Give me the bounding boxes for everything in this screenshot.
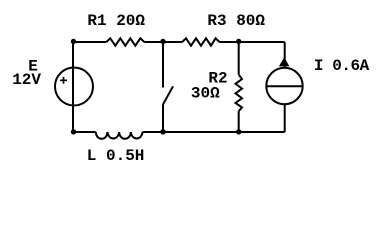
current source I diameter line — [266, 85, 302, 87]
svg-text:L 0.5H: L 0.5H — [87, 147, 145, 165]
resistor R1 — [106, 38, 144, 45]
svg-text:12V: 12V — [12, 71, 41, 89]
wire right vertical top — [284, 42, 286, 68]
svg-text:R3 80Ω: R3 80Ω — [207, 12, 265, 30]
resistor R2 — [236, 75, 243, 112]
node dot top-left — [71, 39, 76, 44]
plus sign of source E — [60, 77, 67, 84]
wire left vertical — [72, 42, 74, 132]
node dot bottom-R2 — [236, 129, 241, 134]
svg-text:R1 20Ω: R1 20Ω — [87, 12, 145, 30]
wire R2 bottom lead — [238, 111, 240, 132]
wire top right horizontal — [220, 41, 285, 43]
wire R2 top lead — [238, 42, 240, 75]
voltage source E circle — [55, 68, 93, 106]
svg-text:30Ω: 30Ω — [191, 85, 220, 103]
node dot bottom-left — [71, 129, 76, 134]
wire bottom right — [143, 131, 285, 133]
current source I circle — [266, 68, 302, 104]
switch bottom lead — [162, 105, 164, 132]
wire bottom left — [73, 131, 96, 133]
switch top lead — [162, 42, 164, 88]
current source I arrow — [279, 57, 290, 66]
node dot top-R2 — [236, 39, 241, 44]
inductor L — [96, 132, 143, 139]
node dot top-middle — [160, 39, 165, 44]
wire top middle — [144, 41, 182, 43]
wire top left horizontal — [73, 41, 106, 43]
node dot bottom-middle — [160, 129, 165, 134]
switch blade — [163, 86, 173, 105]
svg-text:I 0.6A: I 0.6A — [314, 57, 370, 75]
wire right vertical bottom — [284, 104, 286, 132]
resistor R3 — [182, 38, 219, 45]
